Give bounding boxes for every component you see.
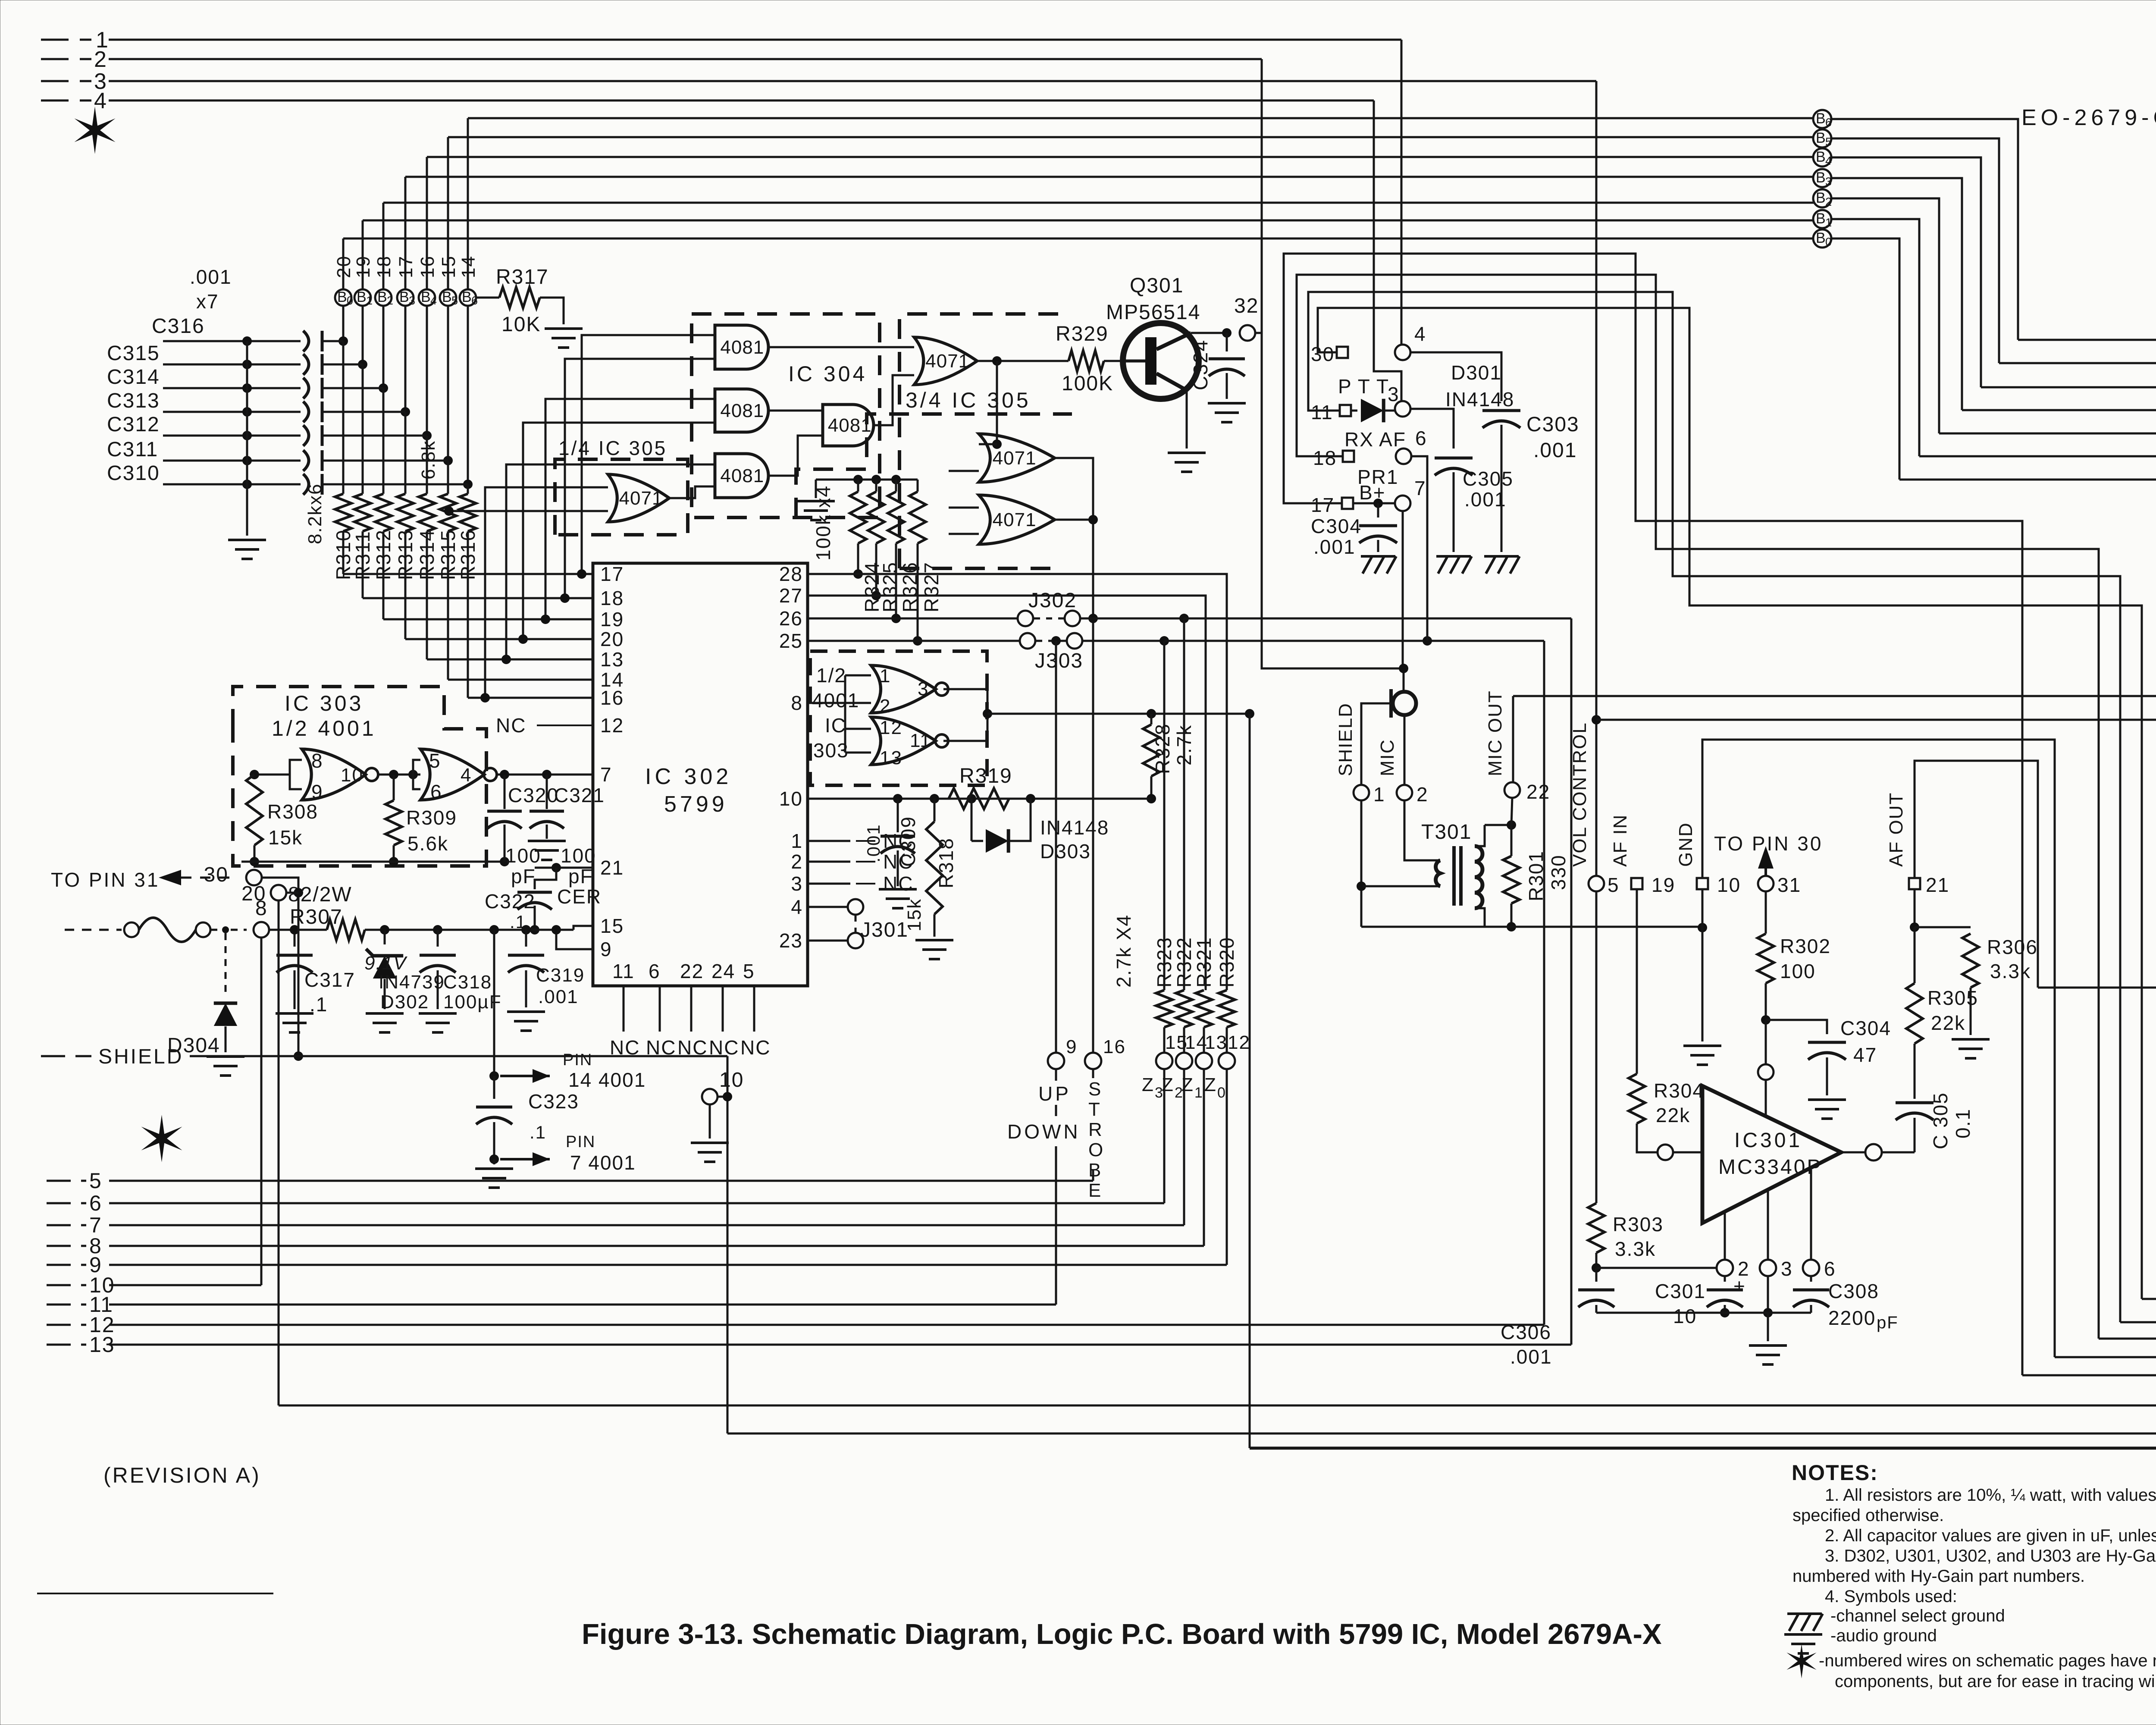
svg-text:19: 19 [600,608,624,630]
svg-text:0.1: 0.1 [1952,1108,1974,1138]
svg-text:17: 17 [600,563,624,585]
svg-text:6: 6 [1824,1258,1836,1280]
node B3 (right) [1813,169,1831,187]
wire pin2 line to R303/C306 [1596,1267,1717,1269]
svg-text:pF: pF [511,865,536,888]
wire to right edge label 18 [1939,433,2156,435]
svg-text:.001: .001 [190,266,232,288]
svg-text:3: 3 [1388,383,1400,405]
svg-text:12: 12 [1228,1032,1250,1053]
wire Z0 down to bus [1226,1069,1228,1265]
svg-text:Z: Z [1162,1074,1173,1095]
svg-text:100: 100 [561,844,596,867]
wire pin3 to bottom rail [1767,1276,1769,1313]
wire net 1 [41,39,91,41]
svg-text:R322: R322 [1173,937,1195,988]
svg-text:10: 10 [1717,874,1741,896]
wire net 10 [47,1284,86,1286]
svg-text:27: 27 [779,584,803,607]
svg-text:8: 8 [791,692,803,714]
ground terminal 10 [691,1142,729,1144]
svg-text:pF: pF [1877,1313,1899,1332]
svg-text:6: 6 [1825,116,1832,129]
svg-text:B: B [442,289,452,305]
wire net 2 [41,58,91,60]
svg-text:31: 31 [1777,874,1801,896]
svg-text:4081: 4081 [720,337,764,358]
IC301 output [1841,1151,1866,1154]
wire 4071#3 in stubs [949,507,979,509]
svg-text:4081: 4081 [720,465,764,486]
svg-text:5: 5 [429,750,441,772]
svg-text:D301: D301 [1451,361,1502,384]
capacitor C306 .001 [1595,1268,1598,1282]
wire B6 to edge 14 [1831,119,2018,340]
svg-text:D303: D303 [1040,840,1091,862]
wire gateC out to 4071#1 in2 [874,375,914,425]
svg-text:3.3k: 3.3k [1615,1238,1656,1260]
capacitor C311 [163,460,301,462]
svg-text:100K: 100K [1062,372,1113,395]
svg-text:10: 10 [779,787,803,810]
resistor R312 [375,494,392,531]
resistor R316 [460,494,476,531]
ground C309 [879,888,917,891]
wire to right edge label 17 [1962,409,2156,411]
svg-text:Z: Z [1204,1074,1216,1095]
microphone MIC1 [1393,692,1416,715]
svg-text:C315: C315 [107,342,160,365]
wire terminal 20 down to line21 rail [278,900,280,1405]
wire R302 to IC301 [1765,1020,1767,1064]
svg-text:100: 100 [1780,960,1816,982]
node Z2 terminal 14 [1183,1027,1185,1053]
IC305 dashed box [899,314,1059,568]
AND gate 4081 D [715,454,768,498]
svg-text:R318: R318 [935,837,957,888]
wire B6 bus [468,117,1814,119]
svg-text:B: B [357,289,367,305]
wire net 3 / VOL CONTROL [41,80,91,82]
svg-text:C305: C305 [1463,467,1514,490]
svg-text:AF OUT: AF OUT [1886,792,1907,867]
svg-text:-audio ground: -audio ground [1830,1626,1937,1645]
node terminal 17 square [1342,498,1353,509]
svg-text:2: 2 [880,696,891,717]
svg-text:4: 4 [461,765,472,786]
svg-text:IN4148: IN4148 [1445,388,1514,411]
svg-text:6: 6 [430,781,442,803]
resistor R311 [354,494,371,531]
svg-text:3: 3 [409,294,415,307]
wire to right edge label 28 [2099,1338,2156,1340]
wire Z1 down to bus [1203,1069,1205,1246]
svg-text:.001: .001 [538,986,579,1007]
svg-text:.1: .1 [530,1122,546,1142]
wire to right edge label 16 [1981,386,2156,389]
wire shield rail to edge 24 [727,1135,2156,1433]
wire IC302 pin 8 to gates [808,702,845,704]
svg-text:T301: T301 [1421,821,1472,844]
svg-text:SHIELD: SHIELD [1335,703,1356,776]
NOR gate IC303 pins 12,13 out 11 [871,717,936,765]
jumper J303 [808,640,1020,642]
node B2 (left) [375,289,392,306]
svg-text:22k: 22k [1656,1104,1690,1126]
svg-text:24: 24 [711,960,735,982]
svg-text:10: 10 [719,1069,744,1091]
wire gateA out to 4071#1 [768,346,914,348]
svg-text:4: 4 [1825,154,1832,167]
svg-text:RX AF: RX AF [1344,428,1406,451]
node GND terminal 10 [1697,878,1708,889]
svg-text:.001: .001 [863,824,884,862]
wire 4071#1 out to R329 [977,360,1069,362]
transistor Q301 MP56514 [1123,323,1199,399]
node B5 (right) [1813,129,1831,147]
svg-text:UP: UP [1038,1082,1071,1105]
svg-text:IC: IC [825,714,846,737]
ground IC301 [1749,1344,1787,1347]
svg-text:25: 25 [779,630,803,652]
wire to right edge label 29 [2055,1356,2156,1358]
star symbol mid-left [141,1115,182,1162]
node Z3 terminal 15 [1163,1027,1166,1053]
node B6 (left) [460,289,476,306]
capacitor C304 .001 (PR1) [1377,503,1379,517]
wire 4071#2/#3 outs join, down to J302 line, strobe [1055,458,1093,1054]
svg-text:5: 5 [89,1169,102,1193]
svg-text:4: 4 [791,896,803,918]
svg-text:AF IN: AF IN [1610,814,1631,867]
node AF OUT terminal 21 [1909,878,1920,889]
capacitor C322 .1 [535,868,556,889]
wire AF OUT up to edge 22 [1915,761,2038,988]
svg-text:1. All resistors are 10%,: 1. All resistors are 10%, ¼ watt, with v… [1825,1486,2156,1505]
capacitor C315 [163,364,301,366]
svg-text:C312: C312 [107,413,160,436]
svg-text:14 4001: 14 4001 [568,1069,646,1091]
wire gate1 out [379,774,420,776]
svg-text:13: 13 [600,648,624,671]
svg-text:R317: R317 [496,266,549,289]
svg-text:4: 4 [430,294,437,307]
ground D304 [207,1055,244,1058]
svg-text:2. All capacitor values are gi: 2. All capacitor values are given in uF,… [1825,1526,2156,1545]
capacitor C304 47 [1766,1020,1827,1034]
node B5 (left) [440,289,456,306]
svg-text:1: 1 [1825,216,1832,229]
wire to right edge label 22 [2038,987,2156,989]
svg-text:10K: 10K [501,313,541,336]
svg-text:2: 2 [791,850,803,873]
node circle 7 [1395,496,1410,511]
svg-text:T: T [1088,1099,1101,1120]
wire to right edge label 15 [1999,362,2156,364]
wire IC303 out to edge 31 [1245,709,1254,718]
wire net 9 [47,1264,86,1266]
svg-text:O: O [1088,1139,1104,1160]
svg-text:4: 4 [1414,323,1426,345]
svg-text:0: 0 [347,294,353,307]
resistor R319 [949,788,1009,809]
capacitor C301 10 + [1724,1276,1726,1282]
capacitor C323 .1 [493,930,495,1076]
svg-text:(REVISION A): (REVISION A) [103,1463,261,1487]
resistor R303 3.3k [1588,1203,1604,1253]
wire R312 to IC302 [382,531,385,619]
svg-text:C301: C301 [1655,1280,1706,1302]
svg-text:5: 5 [1825,135,1832,148]
ground C319 [507,1010,545,1013]
svg-text:D302: D302 [380,991,429,1013]
svg-text:0: 0 [1217,1085,1225,1101]
AND gate 4081 B [715,389,768,432]
svg-text:7 4001: 7 4001 [570,1151,636,1174]
wire B2 to edge 18 [1831,198,1939,433]
node B0 (right) [1813,229,1831,248]
svg-text:4: 4 [94,88,107,113]
svg-text:.001: .001 [1533,439,1577,462]
ground C324 [1208,402,1246,405]
wire 4071#1 out down to 4071#2 [996,361,998,444]
wire gateB out to gateC [768,410,823,412]
svg-text:6: 6 [89,1191,102,1215]
resistor R321 2.7k [1196,990,1212,1027]
svg-text:R325: R325 [879,561,901,612]
svg-text:15k: 15k [904,898,925,931]
resistor R302 100 [1765,891,1767,934]
wire mic terminal 2 to T301 [1404,800,1440,860]
svg-text:5: 5 [451,294,458,307]
OR gate 4071 left (1/4 IC305) [608,474,669,522]
svg-text:47: 47 [1853,1044,1877,1066]
node Z1 terminal 13 [1203,1027,1205,1053]
wire rail [269,929,327,931]
svg-text:.001: .001 [1464,488,1507,511]
capacitor C303 .001 [1482,409,1520,412]
resistor R317 10K [476,297,499,299]
ground R324 rail [797,500,835,502]
svg-text:4071: 4071 [619,488,663,509]
svg-text:IN4739: IN4739 [379,972,445,993]
svg-text:1: 1 [366,294,373,307]
wire Z3 down to bus [1163,1069,1166,1203]
wire B5 bus [448,136,1814,138]
svg-text:21: 21 [600,856,624,879]
node terminal 11 square [1340,405,1351,416]
svg-text:10: 10 [1673,1305,1697,1327]
svg-text:3/4 IC 305: 3/4 IC 305 [906,388,1031,412]
svg-text:1/2 4001: 1/2 4001 [272,716,376,740]
ground C321 [528,840,566,842]
svg-text:1: 1 [880,665,891,687]
notes symbol star [1786,1644,1816,1678]
wire net 4 [41,100,91,102]
svg-text:J302: J302 [1028,589,1077,612]
svg-text:100µF: 100µF [443,991,502,1013]
wire R311 to IC302 [362,531,364,598]
svg-text:R321: R321 [1193,937,1215,988]
svg-text:B: B [399,289,409,305]
wire B4 bus [427,156,1814,158]
wire fuse dashed lead [65,929,122,931]
svg-text:B: B [421,289,431,305]
notes symbol channel ground [1787,1612,1822,1615]
svg-text:R305: R305 [1927,987,1978,1009]
node B0 (left) [335,289,351,306]
svg-text:21: 21 [1926,874,1949,896]
resistor R328 2.7k [1150,714,1153,724]
resistor R323 2.7k [1156,990,1172,1027]
svg-text:20: 20 [241,882,266,905]
svg-text:15: 15 [600,915,624,937]
svg-text:components, but are for ease i: components, but are for ease in tracing … [1835,1672,2156,1691]
wire R314 to IC302 [426,531,428,659]
svg-text:9: 9 [311,781,323,803]
svg-text:303: 303 [813,739,849,762]
wire oscillator bottom rail [241,861,505,863]
node B6 (right) [1813,110,1831,128]
ground C318 [419,1012,457,1015]
ground C323 [475,1167,513,1170]
node circle 6 [1396,448,1411,464]
wire B0 to edge 20 [1831,238,1899,480]
svg-text:NC: NC [740,1036,771,1059]
wire to R328 and net 31 tap [987,713,1250,715]
svg-text:C 305: C 305 [1929,1092,1952,1149]
capacitor C312 [163,435,301,437]
wire circle6 [1411,456,1427,641]
svg-text:16: 16 [1103,1036,1126,1057]
svg-text:MP56514: MP56514 [1106,301,1200,324]
wire B0 bus [343,238,1814,240]
OR gate 4071 #2 [979,434,1055,482]
resistor R320 2.7k [1219,990,1235,1027]
arrow PIN 7 4001 [500,1158,550,1160]
svg-text:1/4 IC 305: 1/4 IC 305 [558,437,667,459]
resistor R310 [335,494,351,531]
svg-text:8: 8 [311,750,323,772]
svg-text:Z: Z [1181,1074,1193,1095]
svg-text:2200: 2200 [1828,1307,1876,1329]
svg-text:S: S [1088,1079,1102,1100]
capacitor C318 100uF [437,930,439,947]
capacitor C308 2200pF [1810,1276,1812,1282]
svg-text:B: B [1088,1160,1102,1181]
wire T301 bottom rail [1361,926,1702,928]
svg-text:EO-2679-C-113: EO-2679-C-113 [2021,105,2156,130]
wire Z2 down to bus [1183,1069,1185,1225]
svg-text:C306: C306 [1501,1321,1551,1343]
svg-text:C308: C308 [1828,1280,1879,1302]
dashed box resistors R324-R327 [796,414,1059,517]
svg-text:Figure 3-13. Schematic Diagram: Figure 3-13. Schematic Diagram, Logic P.… [582,1618,1662,1650]
svg-text:9.1V: 9.1V [364,953,407,974]
wire circle7 down to mic line [1402,511,1404,668]
svg-text:numbered with Hy-Gain part num: numbered with Hy-Gain part numbers. [1792,1567,2085,1586]
svg-text:2: 2 [94,47,107,72]
capacitor C309 .001 [897,799,899,832]
svg-text:11: 11 [1311,401,1333,423]
wire bottom rail + ground [1596,1312,1811,1314]
svg-text:R: R [1088,1119,1103,1140]
svg-text:B: B [1816,149,1826,165]
svg-text:B: B [1816,130,1826,146]
gate input risers [582,335,715,574]
AND gate 4081 C [823,405,874,446]
wire gate2 out to IC302 pin 7 [497,774,593,776]
svg-text:1: 1 [1194,1085,1203,1101]
wire J302 ext down to line 13 [1570,618,1573,1345]
svg-text:13: 13 [880,747,903,768]
svg-text:5799: 5799 [664,792,728,817]
svg-text:C321: C321 [554,784,605,806]
svg-text:C314: C314 [107,366,160,389]
svg-text:11: 11 [612,960,635,982]
svg-text:26: 26 [779,607,803,630]
diode D301 IN4148 [1351,410,1357,412]
IC302 pin 12 NC [537,724,593,726]
wire to right edge label 14 [2018,339,2156,341]
node B4 (left) [419,289,435,306]
wire R313 to IC302 [404,531,407,639]
ground C303 [1484,555,1519,558]
zener D302 IN4739 9.1V [384,930,386,944]
ground D302 [366,1012,404,1015]
svg-text:J303: J303 [1035,649,1083,672]
svg-text:1: 1 [1373,783,1385,806]
svg-text:100: 100 [505,844,541,867]
svg-text:C304: C304 [1840,1017,1891,1039]
svg-text:100k x4: 100k x4 [812,485,834,561]
svg-text:4071: 4071 [993,509,1037,530]
wire terminal20 rail to edge 21 [279,959,2156,1405]
svg-text:4081: 4081 [720,400,764,421]
capacitor C316 [163,340,301,342]
svg-text:R303: R303 [1613,1213,1664,1236]
ground C304 [1808,1098,1846,1101]
svg-text:17: 17 [1311,494,1335,516]
wire J303 ext down to line 12 [1543,641,1545,1325]
svg-text:C324: C324 [1189,339,1212,390]
wire to right edge label 27 [2120,1321,2156,1324]
wire gateD out to gateC in2 [768,436,823,476]
svg-text:MIC: MIC [1377,739,1398,776]
resistor R309 5.6k [385,800,402,845]
svg-text:30: 30 [1311,343,1335,365]
resistor R301 330 [1485,824,1511,826]
svg-text:2: 2 [387,294,393,307]
svg-text:5: 5 [743,960,755,982]
wire circle3 to C305b [1410,409,1454,448]
node terminal 1 SHIELD [1361,703,1391,785]
wire net 11 [47,1304,86,1306]
svg-text:C322: C322 [485,890,536,913]
wire B3 bus [405,176,1814,178]
svg-text:11: 11 [910,730,931,751]
diode D304 [225,933,227,992]
ground R318 [915,939,953,941]
node terminal 10 [702,1089,718,1104]
svg-text:9: 9 [1066,1036,1077,1057]
ground C304b [1361,555,1395,558]
node IC301 input circle [1658,1145,1673,1160]
OR gate 4071 #3 [979,495,1055,544]
resistor R306 3.3k [1915,926,1971,928]
svg-text:2: 2 [1825,195,1832,208]
wire B1 bus [363,220,1814,222]
